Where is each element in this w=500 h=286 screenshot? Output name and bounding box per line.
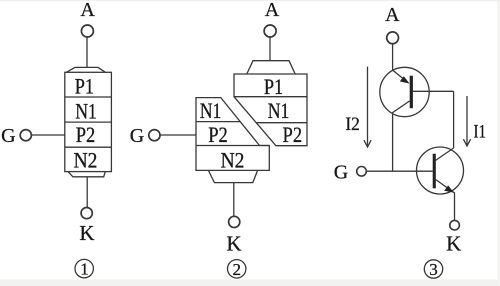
svg-text:P1: P1 xyxy=(75,73,94,98)
svg-text:3: 3 xyxy=(429,260,438,279)
terminal G (fig1) xyxy=(20,130,31,141)
transistor V1 body circle xyxy=(380,67,429,116)
svg-text:P2: P2 xyxy=(283,122,303,147)
terminal K (fig2) xyxy=(229,216,240,227)
svg-text:1: 1 xyxy=(80,260,89,279)
svg-text:N1: N1 xyxy=(75,99,97,124)
svg-text:P1: P1 xyxy=(264,74,283,99)
transistor V1 base bar xyxy=(410,76,413,109)
wire A to anode cap (fig2) xyxy=(269,36,271,61)
junction line N1/P2 (fig2 right) xyxy=(256,122,307,124)
transistor V2 body circle xyxy=(417,147,464,194)
svg-text:P2: P2 xyxy=(208,122,228,147)
top gray hairline xyxy=(0,0,500,1)
wire cap to K (fig2) xyxy=(233,183,235,217)
wire G to gate layer (fig2) xyxy=(159,134,196,136)
junction line P1/N1 (fig2 right) xyxy=(234,96,307,98)
wire G to V2 base (fig3) xyxy=(366,170,433,172)
bottom gray strip xyxy=(0,280,500,286)
wire cap to K (fig1) xyxy=(86,177,88,208)
transistor V1 emitter arrow (PNP) xyxy=(400,76,410,83)
svg-text:G: G xyxy=(334,162,348,184)
upper PNP slab outline (fig2) xyxy=(234,74,307,146)
figure number 1 circle xyxy=(75,259,93,277)
junction line N1/P2 (fig2 left) xyxy=(196,121,240,123)
svg-text:G: G xyxy=(130,125,144,147)
wire A to V1 emitter (fig3) xyxy=(392,44,394,71)
current arrow I1 head xyxy=(463,139,470,146)
transistor V1 collector lead xyxy=(393,101,410,171)
terminal K (fig3) xyxy=(450,220,460,230)
terminal G (fig2) xyxy=(149,130,160,141)
transistor V2 emitter arrow (NPN) xyxy=(444,185,454,192)
four-layer box (fig1) xyxy=(65,72,112,171)
junction line N1/P2 (fig1) xyxy=(65,121,112,123)
transistor V2 collector lead xyxy=(436,148,454,160)
svg-text:I2: I2 xyxy=(345,114,360,135)
lower NPN slab outline (fig2) xyxy=(196,98,269,171)
transistor V1 emitter lead xyxy=(393,70,407,82)
figure number 2 circle xyxy=(228,260,246,278)
transistor V2 emitter lead xyxy=(436,180,455,221)
current arrow I2 line xyxy=(367,67,369,147)
svg-text:I1: I1 xyxy=(474,122,487,143)
junction line P2/N2 (fig2 left) xyxy=(196,145,269,147)
terminal K (fig1) xyxy=(81,208,92,219)
terminal A (fig3) xyxy=(387,32,399,44)
svg-text:A: A xyxy=(385,4,400,26)
svg-text:A: A xyxy=(265,0,280,21)
svg-text:N1: N1 xyxy=(200,98,222,123)
wire V1 base to V2 collector xyxy=(453,91,455,148)
junction line P2/N2 (fig1) xyxy=(65,146,112,148)
anode contact cap (fig1) xyxy=(66,67,105,72)
transistor V2 base bar xyxy=(433,154,436,189)
svg-text:N2: N2 xyxy=(74,148,98,173)
transistor V1 base lead xyxy=(413,90,454,92)
svg-text:2: 2 xyxy=(232,260,241,279)
svg-text:K: K xyxy=(79,221,94,245)
cathode contact cap (fig1) xyxy=(68,172,105,177)
terminal A (fig1) xyxy=(81,25,93,37)
svg-text:G: G xyxy=(1,125,15,147)
svg-text:N2: N2 xyxy=(221,147,245,172)
current arrow I2 head xyxy=(364,140,371,147)
anode contact cap (fig2) xyxy=(247,61,295,74)
terminal G (fig3) xyxy=(357,167,367,177)
right gray edge xyxy=(497,0,500,286)
terminal A (fig2) xyxy=(264,25,276,37)
svg-text:K: K xyxy=(226,231,241,255)
svg-text:K: K xyxy=(446,231,461,255)
current arrow I1 line xyxy=(466,96,468,146)
svg-text:A: A xyxy=(80,0,95,21)
wire A to anode cap (fig1) xyxy=(86,36,88,67)
wire G to gate layer (fig1) xyxy=(31,134,65,136)
junction line P1/N1 (fig1) xyxy=(65,96,112,98)
svg-text:N1: N1 xyxy=(268,98,290,123)
cathode contact cap (fig2) xyxy=(208,170,257,182)
figure number 3 circle xyxy=(424,260,442,278)
svg-text:P2: P2 xyxy=(76,122,96,147)
